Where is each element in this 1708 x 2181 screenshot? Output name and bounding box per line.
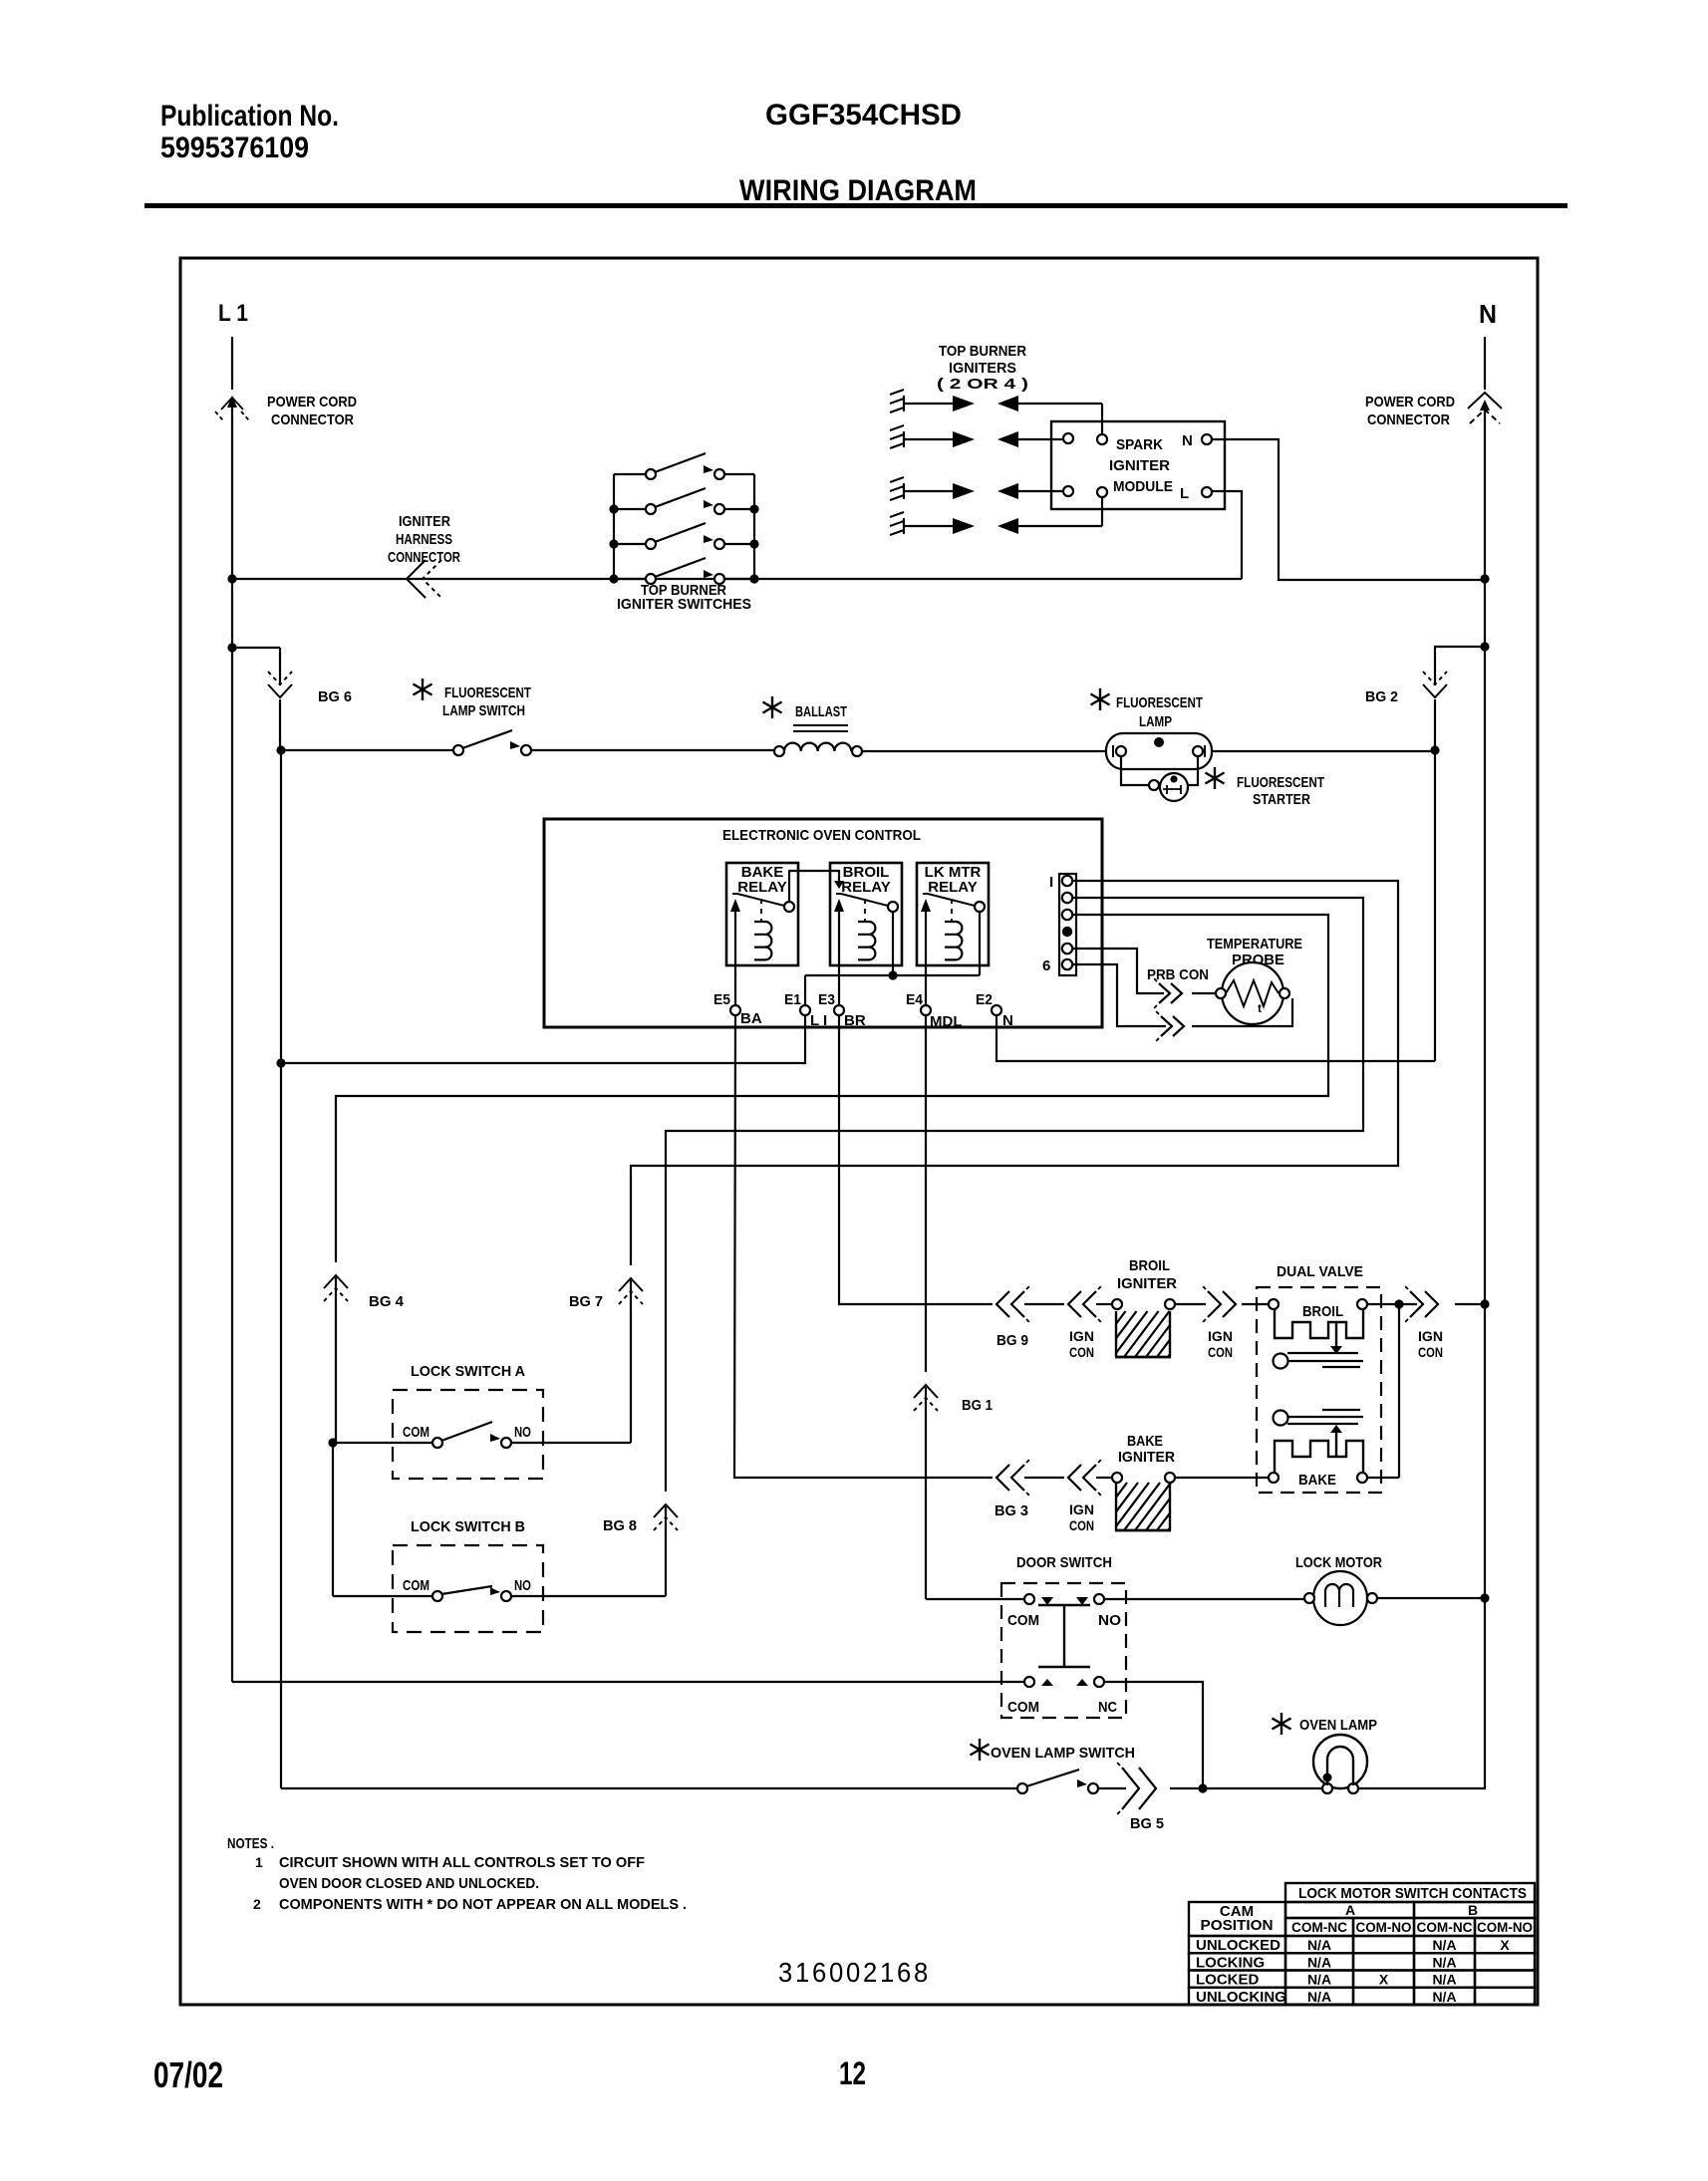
svg-text:BG 1: BG 1 [962,1397,993,1414]
svg-text:IGN: IGN [1208,1328,1233,1344]
svg-text:BG 9: BG 9 [996,1332,1028,1349]
svg-text:STARTER: STARTER [1253,791,1310,808]
svg-text:NOTES .: NOTES . [227,1835,274,1852]
svg-text:IGNITER: IGNITER [1117,1275,1177,1292]
svg-text:UNLOCKED: UNLOCKED [1196,1937,1281,1954]
svg-text:BALLAST: BALLAST [795,703,847,720]
svg-text:RELAY: RELAY [928,879,977,896]
svg-text:OVEN LAMP: OVEN LAMP [1299,1717,1377,1734]
svg-text:GGF354CHSD: GGF354CHSD [765,99,962,132]
svg-text:COM: COM [1007,1699,1039,1716]
svg-text:DUAL VALVE: DUAL VALVE [1277,1263,1363,1280]
svg-text:OVEN DOOR CLOSED AND UNLOCKED.: OVEN DOOR CLOSED AND UNLOCKED. [279,1875,539,1892]
svg-text:B: B [1468,1902,1478,1918]
svg-text:COM: COM [403,1424,429,1441]
svg-text:BG 8: BG 8 [603,1517,637,1534]
svg-text:UNLOCKING: UNLOCKING [1196,1989,1286,2006]
svg-text:POSITION: POSITION [1201,1917,1274,1934]
svg-text:COM-NO: COM-NO [1356,1919,1412,1935]
svg-text:N/A: N/A [1432,1954,1456,1970]
svg-text:IGNITER: IGNITER [399,513,450,530]
svg-text:N/A: N/A [1307,1972,1331,1988]
svg-text:POWER CORD: POWER CORD [267,394,357,410]
svg-text:RELAY: RELAY [841,879,890,896]
svg-text:SPARK: SPARK [1116,436,1163,453]
svg-text:COM-NC: COM-NC [1417,1919,1473,1935]
svg-text:BA: BA [740,1010,762,1027]
svg-text:COM: COM [1007,1612,1039,1629]
svg-text:BG 5: BG 5 [1130,1815,1164,1832]
svg-text:LOCKING: LOCKING [1196,1954,1265,1971]
svg-text:MODULE: MODULE [1113,478,1173,495]
svg-text:BG 4: BG 4 [369,1293,405,1310]
svg-text:( 2 OR 4 ): ( 2 OR 4 ) [937,376,1028,393]
svg-text:IGNITER: IGNITER [1109,457,1170,474]
svg-text:L 1: L 1 [218,300,248,327]
svg-text:I: I [1049,874,1053,891]
svg-text:FLUORESCENT: FLUORESCENT [1116,694,1203,711]
svg-text:TOP BURNER: TOP BURNER [939,343,1026,360]
svg-text:LAMP SWITCH: LAMP SWITCH [442,702,525,719]
svg-text:RELAY: RELAY [737,879,786,896]
svg-text:t: t [1258,1001,1262,1015]
svg-text:N/A: N/A [1432,1972,1456,1988]
svg-text:6: 6 [1042,957,1050,974]
svg-text:BAKE: BAKE [1298,1472,1336,1489]
svg-text:LOCK SWITCH B: LOCK SWITCH B [411,1518,525,1535]
svg-text:COM-NC: COM-NC [1291,1919,1347,1935]
svg-text:BG 7: BG 7 [569,1293,603,1310]
svg-text:IGN: IGN [1418,1328,1443,1344]
svg-text:1: 1 [255,1854,263,1870]
svg-text:LOCK MOTOR SWITCH CONTACTS: LOCK MOTOR SWITCH CONTACTS [1298,1885,1527,1902]
svg-text:LOCKED: LOCKED [1196,1972,1260,1989]
svg-text:CON: CON [1418,1344,1443,1360]
svg-text:N/A: N/A [1307,1954,1331,1970]
svg-text:E1: E1 [784,991,801,1008]
svg-text:IGNITERS: IGNITERS [949,360,1016,377]
svg-text:NC: NC [1098,1699,1117,1716]
svg-text:CON: CON [1208,1344,1233,1360]
svg-text:N/A: N/A [1432,1937,1456,1953]
svg-text:316002168: 316002168 [778,1957,931,1988]
svg-text:IGNITER SWITCHES: IGNITER SWITCHES [617,596,751,613]
svg-text:E2: E2 [976,991,993,1008]
svg-text:HARNESS: HARNESS [396,531,452,548]
svg-text:N/A: N/A [1432,1989,1456,2005]
svg-text:NO: NO [514,1577,531,1594]
svg-text:LOCK MOTOR: LOCK MOTOR [1295,1554,1382,1571]
svg-text:PRB CON: PRB CON [1147,966,1209,983]
svg-text:IGN: IGN [1069,1501,1094,1517]
svg-text:CON: CON [1069,1517,1094,1533]
svg-text:COMPONENTS WITH * DO NOT APPEA: COMPONENTS WITH * DO NOT APPEAR ON ALL M… [279,1896,687,1913]
svg-text:N/A: N/A [1307,1937,1331,1953]
svg-text:BAKE: BAKE [1127,1433,1163,1450]
svg-text:BG 3: BG 3 [995,1502,1028,1519]
svg-text:LAMP: LAMP [1139,713,1172,730]
svg-text:COM-NO: COM-NO [1477,1919,1533,1935]
svg-text:WIRING DIAGRAM: WIRING DIAGRAM [739,174,977,207]
svg-text:E3: E3 [818,991,835,1008]
svg-text:IGNITER: IGNITER [1118,1449,1175,1466]
svg-text:Publication No.: Publication No. [160,100,339,133]
svg-text:FLUORESCENT: FLUORESCENT [1237,774,1324,791]
svg-text:CONNECTOR: CONNECTOR [271,411,354,428]
svg-text:N: N [1182,432,1193,449]
svg-text:X: X [1500,1937,1510,1953]
svg-text:07/02: 07/02 [153,2054,223,2095]
svg-text:E5: E5 [713,991,730,1008]
svg-text:POWER CORD: POWER CORD [1365,394,1455,410]
svg-text:NO: NO [1098,1612,1121,1629]
svg-text:12: 12 [839,2055,866,2091]
svg-text:CIRCUIT SHOWN WITH ALL CONTROL: CIRCUIT SHOWN WITH ALL CONTROLS SET TO O… [279,1854,645,1871]
svg-text:BROIL: BROIL [1129,1257,1170,1274]
svg-text:LOCK SWITCH A: LOCK SWITCH A [411,1363,525,1380]
svg-text:BG 2: BG 2 [1365,688,1398,705]
svg-text:CON: CON [1069,1344,1094,1360]
svg-text:A: A [1345,1902,1355,1918]
svg-text:CONNECTOR: CONNECTOR [388,549,460,566]
svg-text:NO: NO [514,1424,531,1441]
svg-text:OVEN LAMP SWITCH: OVEN LAMP SWITCH [991,1745,1135,1762]
svg-text:N: N [1002,1012,1013,1029]
svg-text:FLUORESCENT: FLUORESCENT [444,684,531,701]
svg-text:DOOR SWITCH: DOOR SWITCH [1016,1554,1112,1571]
svg-text:5995376109: 5995376109 [160,132,309,164]
svg-text:E4: E4 [906,991,924,1008]
svg-text:N/A: N/A [1307,1989,1331,2005]
svg-text:IGN: IGN [1069,1328,1094,1344]
svg-text:L I: L I [810,1012,827,1029]
svg-text:COM: COM [403,1577,429,1594]
svg-text:ELECTRONIC OVEN CONTROL: ELECTRONIC OVEN CONTROL [722,827,921,844]
svg-text:BROIL: BROIL [1302,1303,1343,1320]
svg-text:BG 6: BG 6 [318,688,352,705]
svg-text:N: N [1479,299,1497,329]
svg-text:CONNECTOR: CONNECTOR [1367,411,1450,428]
svg-text:MDL: MDL [930,1013,963,1030]
svg-text:BR: BR [844,1012,866,1029]
svg-text:2: 2 [253,1896,261,1912]
svg-text:X: X [1379,1972,1389,1988]
svg-text:L: L [1180,485,1189,502]
svg-text:TEMPERATURE: TEMPERATURE [1207,936,1302,953]
